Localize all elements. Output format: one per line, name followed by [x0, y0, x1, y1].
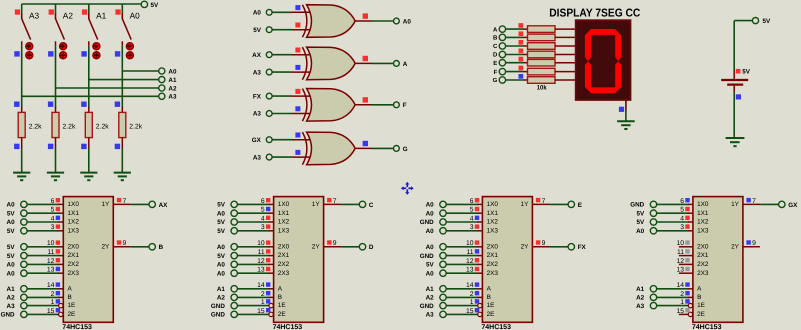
svg-text:15: 15	[676, 308, 684, 315]
svg-text:A2: A2	[426, 295, 435, 302]
svg-text:5V: 5V	[7, 244, 16, 251]
terminal A3 (U4 pin 1)	[636, 302, 657, 309]
svg-text:1E: 1E	[487, 302, 495, 309]
terminal 5V (U2 pin 4)	[217, 219, 237, 226]
wire U5 to A0	[372, 20, 393, 22]
U2 pin 14 (A)	[257, 282, 273, 289]
svg-text:14: 14	[257, 282, 265, 289]
svg-text:1X3: 1X3	[68, 227, 80, 234]
wire AX to U6	[272, 54, 292, 56]
svg-text:A3: A3	[253, 154, 262, 161]
wire 5V to U1 pin 3	[27, 230, 59, 232]
U4 pin 11 (2X1) stub	[677, 249, 693, 256]
wire A2 to U2 pin 2	[237, 296, 269, 298]
terminal A3 (U7 input 2)	[253, 111, 272, 118]
svg-text:A0: A0	[253, 10, 262, 17]
resistor R1 2.2k	[14, 102, 42, 150]
svg-text:10: 10	[47, 240, 55, 247]
U2 pin 2 (B)	[261, 291, 274, 298]
svg-text:15: 15	[257, 308, 265, 315]
svg-text:A0: A0	[130, 11, 141, 21]
svg-text:A0: A0	[426, 228, 435, 235]
U4 pin 9 (2Y) stub	[743, 240, 760, 247]
svg-text:A1: A1	[96, 11, 107, 21]
wire A2 to U4 pin 2	[657, 296, 689, 298]
U4 pin 13 (2X3) stub	[676, 267, 692, 274]
terminal A0 (U5 input 1)	[253, 9, 272, 16]
wire 5V to U1 pin 10	[27, 246, 59, 248]
terminal D (U2 output)	[359, 244, 374, 252]
svg-text:1X3: 1X3	[697, 227, 709, 234]
svg-text:A0: A0	[168, 68, 177, 75]
svg-text:B: B	[68, 294, 72, 301]
svg-text:3: 3	[470, 224, 474, 231]
svg-text:2E: 2E	[697, 311, 705, 318]
svg-text:D: D	[369, 244, 374, 251]
svg-text:A3: A3	[29, 11, 40, 21]
wire 5V to U1 pin 5	[27, 212, 59, 214]
wire U8 to G	[372, 147, 393, 149]
svg-text:3: 3	[51, 224, 55, 231]
svg-text:2X3: 2X3	[697, 270, 709, 277]
wire switch A0 top drop	[121, 4, 123, 14]
terminal A0 (U1 pin 6)	[7, 201, 28, 208]
wire A0 to U2 pin 12	[237, 263, 269, 265]
svg-text:2E: 2E	[487, 311, 495, 318]
svg-text:A0: A0	[7, 262, 16, 269]
U2 pin 10 (2X0)	[257, 240, 273, 247]
74HC153 U4 body	[693, 197, 743, 323]
svg-text:1X2: 1X2	[68, 219, 80, 226]
svg-text:9: 9	[542, 240, 546, 247]
label DISPLAY 7SEG CC	[549, 8, 640, 20]
U1 pin 11 (2X1)	[47, 249, 63, 256]
svg-text:A0: A0	[403, 18, 412, 25]
resistor RN1.E	[523, 59, 576, 66]
U1 pin 3 (1X3)	[51, 224, 64, 231]
svg-text:74HC153: 74HC153	[481, 324, 511, 330]
wire A0 to U1 pin 4	[27, 221, 59, 223]
svg-text:5: 5	[261, 207, 265, 214]
U2 pin 15 (2E)	[257, 308, 273, 317]
terminal A2 (U3 pin 2)	[426, 294, 447, 301]
svg-text:1X0: 1X0	[487, 201, 499, 208]
svg-text:6: 6	[261, 198, 265, 205]
svg-text:E: E	[493, 60, 497, 67]
battery BAT1 5V	[721, 68, 751, 99]
svg-text:A3: A3	[426, 312, 435, 319]
terminal A0 (U4 pin 3)	[636, 228, 657, 235]
wire node A1	[89, 79, 159, 81]
xor gate U7	[302, 89, 355, 122]
7-segment digit 0 (segments A-F lit)	[585, 29, 622, 93]
wire 5V terminal to battery	[734, 21, 752, 72]
svg-text:14: 14	[466, 282, 474, 289]
wire resistor R2 to ground	[55, 148, 57, 172]
label U2 74HC153	[273, 324, 303, 330]
svg-text:2X1: 2X1	[487, 252, 499, 259]
wire 5V to U1 pin 11	[27, 255, 59, 257]
terminal A0 (U3 pin 10)	[426, 244, 447, 251]
terminal F (display input)	[494, 68, 506, 75]
xor gate U6 pins	[292, 48, 311, 73]
svg-text:5V: 5V	[217, 202, 226, 209]
svg-text:13: 13	[676, 267, 684, 274]
U2 pin 11 (2X1)	[258, 249, 274, 256]
svg-text:A: A	[697, 285, 702, 292]
svg-text:4: 4	[51, 215, 55, 222]
svg-text:2Y: 2Y	[521, 243, 530, 250]
74HC153 U3 body	[482, 197, 532, 323]
svg-text:AX: AX	[252, 52, 262, 59]
svg-text:74HC153: 74HC153	[692, 324, 722, 330]
svg-text:2.2k: 2.2k	[129, 124, 142, 131]
svg-text:GND: GND	[1, 312, 15, 319]
wire GND to U2 pin 15	[237, 313, 269, 315]
U3 pin 12 (2X2)	[466, 258, 482, 265]
xor gate U5 pins	[292, 5, 311, 30]
wire A3 to U6	[272, 71, 292, 73]
resistor RN1.A	[523, 26, 576, 33]
svg-text:2X1: 2X1	[68, 252, 80, 259]
svg-text:1X3: 1X3	[278, 227, 290, 234]
ground (battery)	[726, 138, 745, 146]
svg-text:10k: 10k	[537, 84, 547, 91]
wire A1 to U3 pin 14	[446, 288, 478, 290]
svg-text:2X2: 2X2	[68, 261, 80, 268]
svg-text:1Y: 1Y	[731, 201, 740, 208]
terminal A0 (U5 output)	[394, 18, 412, 25]
svg-text:1Y: 1Y	[521, 201, 530, 208]
ground (switch A2)	[47, 173, 64, 181]
label U4 74HC153	[692, 324, 722, 330]
switch A2	[48, 9, 73, 59]
wire U2 1Y to C	[341, 203, 359, 205]
svg-text:GX: GX	[252, 137, 262, 144]
svg-text:2X0: 2X0	[68, 243, 80, 250]
terminal A1 (U1 pin 14)	[7, 286, 28, 293]
xor gate U5 output pin	[355, 13, 372, 21]
terminal GND (U2 pin 1)	[211, 302, 238, 309]
svg-text:3: 3	[261, 224, 265, 231]
terminal 5V (U4 pin 4)	[636, 219, 656, 226]
node A2 terminal	[159, 85, 177, 93]
svg-text:A1: A1	[426, 286, 435, 293]
svg-text:B: B	[278, 294, 282, 301]
74HC153 U1 body	[63, 197, 113, 323]
wire A1 to U1 pin 14	[27, 288, 59, 290]
svg-text:A2: A2	[63, 11, 74, 21]
svg-text:A3: A3	[636, 303, 645, 310]
wire GND to U2 pin 1	[237, 305, 269, 307]
U1 pin 12 (2X2)	[47, 258, 63, 265]
svg-text:14: 14	[676, 282, 684, 289]
terminal 5V (U1 pin 10)	[7, 244, 27, 251]
wire 5V rail	[22, 3, 142, 5]
svg-text:2: 2	[470, 291, 474, 298]
wire switch A3 top drop	[21, 4, 23, 14]
svg-text:9: 9	[333, 240, 337, 247]
svg-text:1X1: 1X1	[487, 210, 499, 217]
origin marker (blue cross)	[401, 182, 414, 195]
terminal A1 (U3 pin 14)	[426, 286, 447, 293]
node A3 terminal	[159, 93, 177, 100]
U4 pin 7 (1Y)	[743, 198, 761, 205]
wire A0 to U1 pin 13	[27, 272, 59, 274]
svg-text:11: 11	[677, 249, 684, 256]
svg-text:6: 6	[470, 198, 474, 205]
terminal B (display input)	[493, 34, 506, 41]
terminal A1 (U4 pin 14)	[636, 286, 657, 293]
wire U2 2Y to D	[341, 246, 359, 248]
wire E to RN1	[506, 57, 524, 63]
svg-text:4: 4	[470, 215, 474, 222]
wire A0 to U3 pin 3	[446, 230, 478, 232]
svg-text:5V: 5V	[7, 228, 16, 235]
svg-text:4: 4	[261, 215, 265, 222]
wire A0 to U3 pin 6	[446, 203, 478, 205]
U4 pin 6 (1X0)	[680, 198, 693, 205]
svg-text:F: F	[403, 102, 407, 109]
wire GND to U4 pin 6	[657, 203, 689, 205]
svg-text:1X3: 1X3	[487, 227, 499, 234]
label RN1 10k	[537, 84, 547, 91]
terminal A0 (U2 pin 5)	[217, 210, 238, 217]
svg-text:A3: A3	[7, 303, 16, 310]
svg-text:1: 1	[261, 299, 265, 306]
wire A0 to U2 pin 5	[237, 212, 269, 214]
wire switch A1 to resistor	[88, 46, 90, 108]
wire display to ground	[625, 110, 627, 121]
ground (switch A1)	[80, 173, 97, 181]
wire A0 to U3 pin 10	[446, 246, 478, 248]
svg-text:D: D	[493, 52, 498, 59]
terminal 5V (U2 pin 3)	[217, 228, 237, 235]
svg-text:2X1: 2X1	[278, 252, 290, 259]
U3 pin 15 (2E)	[466, 308, 482, 317]
svg-text:1X0: 1X0	[278, 201, 290, 208]
svg-text:11: 11	[258, 249, 265, 256]
wire 5V to U2 pin 6	[237, 203, 269, 205]
terminal G (display input)	[493, 77, 506, 84]
terminal A0 (U3 pin 13)	[426, 270, 447, 277]
ground (switch A3)	[13, 173, 30, 181]
U1 pin 2 (B)	[51, 291, 64, 298]
terminal GND (U3 pin 1)	[420, 302, 446, 309]
svg-text:2X0: 2X0	[487, 243, 499, 250]
svg-text:5: 5	[470, 207, 474, 214]
svg-text:1E: 1E	[68, 302, 76, 309]
wire node A0	[122, 70, 158, 72]
wire A to RN1	[506, 23, 524, 29]
terminal 5V (U2 pin 6)	[217, 201, 237, 208]
svg-text:2Y: 2Y	[312, 243, 321, 250]
terminal E (U3 output)	[568, 201, 582, 209]
terminal FX (U7 input 1)	[253, 93, 272, 100]
ground (switch A0)	[114, 173, 131, 181]
terminal AX (U1 output)	[149, 201, 168, 209]
svg-text:B: B	[493, 35, 498, 42]
U3 pin 13 (2X3)	[466, 267, 482, 274]
svg-text:DISPLAY 7SEG CC: DISPLAY 7SEG CC	[549, 8, 640, 20]
U4 pin 14 (A)	[676, 282, 692, 289]
svg-text:13: 13	[466, 267, 474, 274]
svg-text:1X2: 1X2	[278, 219, 290, 226]
svg-text:7: 7	[752, 198, 756, 205]
svg-text:2X0: 2X0	[697, 243, 709, 250]
svg-text:A: A	[278, 285, 283, 292]
terminal A0 (U3 pin 3)	[426, 228, 447, 235]
wire U3 1Y to E	[550, 203, 568, 205]
U2 pin 6 (1X0)	[261, 198, 274, 205]
svg-text:6: 6	[51, 198, 55, 205]
U1 pin names	[68, 201, 111, 318]
resistor RN1.G	[523, 77, 576, 84]
svg-text:A0: A0	[636, 228, 645, 235]
svg-text:1Y: 1Y	[101, 201, 110, 208]
U3 pin 9 (2Y)	[532, 240, 550, 247]
svg-text:A1: A1	[217, 286, 226, 293]
svg-text:2E: 2E	[278, 311, 286, 318]
svg-text:A2: A2	[217, 295, 226, 302]
svg-text:1: 1	[680, 299, 684, 306]
U3 pin 5 (1X1)	[470, 207, 483, 214]
U4 pin 5 (1X1)	[680, 207, 693, 214]
terminal GND (U2 pin 15)	[211, 311, 238, 318]
U1 pin 6 (1X0)	[51, 198, 64, 205]
xor gate U7 output pin	[355, 97, 372, 105]
svg-text:1X1: 1X1	[68, 210, 80, 217]
terminal B (U1 output)	[149, 244, 164, 252]
svg-text:12: 12	[257, 258, 265, 265]
svg-text:1Y: 1Y	[312, 201, 321, 208]
U1 pin 7 (1Y)	[113, 198, 131, 205]
wire A0 to U1 pin 6	[27, 203, 59, 205]
terminal A1 (U2 pin 14)	[217, 286, 238, 293]
svg-text:A0: A0	[426, 270, 435, 277]
wire GND to U3 pin 4	[446, 221, 478, 223]
wire switch A1 top drop	[88, 4, 90, 14]
svg-text:11: 11	[47, 249, 54, 256]
svg-text:6: 6	[680, 198, 684, 205]
svg-text:2X1: 2X1	[697, 252, 709, 259]
U4 pin 3 (1X3)	[680, 224, 693, 231]
terminal C (U2 output)	[359, 201, 374, 209]
terminal GND (U1 pin 15)	[1, 311, 27, 318]
U3 pin names	[487, 201, 530, 318]
wire 5V to U2 pin 3	[237, 230, 269, 232]
svg-text:C: C	[369, 202, 374, 209]
svg-text:2X3: 2X3	[487, 270, 499, 277]
svg-text:2X2: 2X2	[487, 261, 499, 268]
xor gate U5	[302, 5, 355, 38]
switch A1	[81, 9, 106, 59]
terminal A2 (U4 pin 2)	[636, 294, 657, 301]
wire switch A2 top drop	[55, 4, 57, 14]
svg-text:A1: A1	[7, 286, 16, 293]
terminal A0 (U2 pin 12)	[217, 261, 238, 268]
terminal C (display input)	[493, 43, 506, 50]
svg-text:A0: A0	[426, 202, 435, 209]
wire A3 to U8	[272, 156, 292, 158]
svg-text:GND: GND	[420, 253, 434, 260]
svg-text:13: 13	[257, 267, 265, 274]
terminal A2 (U2 pin 2)	[217, 294, 238, 301]
svg-text:74HC153: 74HC153	[273, 324, 303, 330]
svg-text:FX: FX	[578, 244, 587, 251]
U4 pin 4 (1X2)	[680, 215, 693, 222]
svg-text:A: A	[68, 285, 73, 292]
U3 pin 2 (B)	[470, 291, 483, 298]
resistor R3 2.2k	[81, 102, 109, 150]
switch A3	[14, 9, 39, 59]
svg-text:1X0: 1X0	[68, 201, 80, 208]
svg-text:2.2k: 2.2k	[29, 124, 42, 131]
terminal 5V (U1 pin 11)	[7, 252, 27, 259]
wire U6 to A	[372, 62, 393, 64]
U1 pin 1 (1E)	[51, 299, 63, 308]
svg-text:5V: 5V	[217, 219, 226, 226]
U3 pin 7 (1Y)	[532, 198, 550, 205]
svg-text:2: 2	[261, 291, 265, 298]
svg-text:GND: GND	[211, 312, 225, 319]
svg-text:7: 7	[123, 198, 127, 205]
xor gate U7 pins	[292, 89, 311, 114]
U3 pin 4 (1X2)	[470, 215, 483, 222]
svg-text:5: 5	[680, 207, 684, 214]
U3 pin 14 (A)	[466, 282, 482, 289]
U2 pin names	[278, 201, 321, 318]
svg-text:C: C	[493, 43, 498, 50]
svg-text:1: 1	[470, 299, 474, 306]
wire switch A3 to resistor	[21, 46, 23, 108]
svg-text:7: 7	[333, 198, 337, 205]
wire node A3	[22, 95, 159, 97]
resistor R2 2.2k	[48, 102, 76, 150]
wire A2 to U1 pin 2	[27, 296, 59, 298]
svg-text:1X2: 1X2	[697, 219, 709, 226]
wire U7 to F	[372, 104, 393, 106]
svg-text:7: 7	[542, 198, 546, 205]
svg-text:G: G	[493, 77, 498, 84]
wire GX to U8	[272, 139, 292, 141]
node A1 terminal	[159, 77, 177, 85]
wire U1 2Y to B	[131, 246, 149, 248]
svg-text:AX: AX	[159, 202, 169, 209]
wire resistor R4 to ground	[121, 148, 123, 172]
terminal A0 (U2 pin 10)	[217, 244, 238, 251]
svg-text:5V: 5V	[217, 253, 226, 260]
svg-text:5V: 5V	[636, 219, 645, 226]
svg-text:12: 12	[47, 258, 55, 265]
U3 pin 1 (1E)	[470, 299, 482, 308]
terminal 5V (U5 input 2)	[253, 27, 272, 34]
svg-text:FX: FX	[253, 93, 262, 100]
svg-text:GND: GND	[420, 219, 434, 226]
svg-text:A2: A2	[168, 85, 177, 92]
U3 pin 10 (2X0)	[466, 240, 482, 247]
U4 pin 10 (2X0) stub	[676, 240, 692, 247]
display ground pin	[619, 100, 626, 112]
node A0 terminal	[159, 68, 177, 76]
svg-text:1E: 1E	[697, 302, 705, 309]
U1 pin 10 (2X0)	[47, 240, 63, 247]
U3 pin 6 (1X0)	[470, 198, 483, 205]
svg-text:5V: 5V	[763, 18, 772, 25]
U2 pin 7 (1Y)	[324, 198, 342, 205]
7-segment display body	[576, 20, 631, 100]
U2 pin 1 (1E)	[261, 299, 273, 308]
